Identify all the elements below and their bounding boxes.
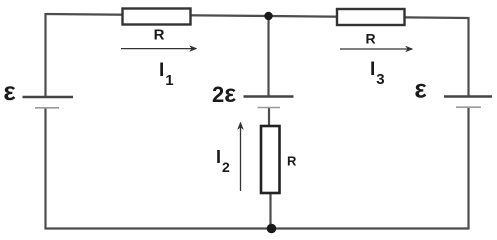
node junction top (between branches)	[264, 12, 272, 20]
battery cell EMF 2ε (middle): long positive plate	[244, 95, 294, 98]
battery cell EMF ε (left): long positive plate	[23, 96, 74, 99]
current arrow I3	[340, 48, 412, 50]
svg-text:ε: ε	[3, 76, 15, 106]
svg-text:R: R	[287, 154, 297, 169]
svg-text:2ε: 2ε	[212, 80, 236, 108]
node junction bottom (between branches)	[267, 224, 277, 234]
wire right vertical lower segment	[467, 108, 469, 230]
wire top horizontal (left corner to right corner)	[46, 14, 469, 18]
battery cell EMF ε (right): short negative plate	[456, 106, 481, 108]
wire right vertical upper segment	[467, 17, 469, 96]
wire left vertical upper segment	[44, 13, 46, 96]
current arrow I1	[121, 48, 196, 50]
wire middle vertical (battery 2ε to resistor R)	[268, 108, 270, 127]
current arrow I2 (pointing up)	[240, 123, 242, 191]
wire middle vertical upper segment (junction to battery 2ε)	[267, 16, 269, 96]
battery cell EMF ε (right): long positive plate	[444, 95, 492, 98]
resistor R (top left branch)	[123, 9, 191, 25]
wire middle vertical lower segment (resistor R to bottom node)	[269, 192, 271, 229]
resistor R (top right branch)	[337, 9, 405, 25]
svg-text:R: R	[365, 31, 375, 47]
battery cell EMF 2ε (middle): short negative plate	[258, 107, 281, 109]
wire left vertical lower segment	[44, 108, 46, 229]
svg-text:R: R	[154, 27, 165, 44]
svg-text:ε: ε	[414, 74, 426, 104]
resistor R (middle vertical branch)	[261, 126, 280, 193]
battery cell EMF ε (left): short negative plate	[35, 107, 59, 109]
wire bottom horizontal	[45, 227, 470, 229]
